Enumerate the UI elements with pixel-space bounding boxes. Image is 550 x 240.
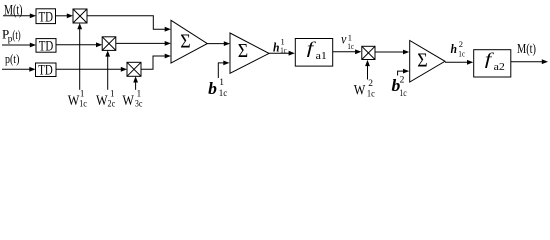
TD box 3 bbox=[36, 63, 57, 77]
svg-text:M(t): M(t) bbox=[517, 42, 536, 57]
svg-text:1c: 1c bbox=[399, 88, 406, 98]
svg-text:Σ: Σ bbox=[417, 50, 427, 72]
svg-text:a1: a1 bbox=[316, 51, 327, 62]
svg-text:W: W bbox=[68, 93, 80, 109]
svg-text:TD: TD bbox=[39, 9, 54, 25]
svg-text:3c: 3c bbox=[135, 99, 143, 109]
svg-text:1c: 1c bbox=[347, 41, 354, 51]
multiplier mult4 bbox=[362, 46, 375, 59]
multiplier mult1 bbox=[73, 9, 87, 23]
wire TD3 to mult3 bbox=[56, 68, 123, 70]
svg-text:h: h bbox=[451, 41, 458, 56]
svg-text:1: 1 bbox=[110, 88, 115, 98]
wire fa1 to mult4 bbox=[333, 51, 357, 53]
svg-text:p(t): p(t) bbox=[5, 51, 19, 66]
wire mult3 to sum1 bottom input bbox=[141, 56, 166, 69]
wire TD1 to mult1 bbox=[56, 15, 69, 17]
svg-text:b: b bbox=[208, 79, 217, 98]
wire Pp(t) input bbox=[2, 44, 31, 46]
svg-text:a2: a2 bbox=[494, 62, 505, 73]
wire mult1 to sum1 top input bbox=[87, 16, 166, 29]
wire W13c up into mult3 bbox=[135, 82, 137, 90]
svg-text:TD: TD bbox=[39, 38, 54, 54]
wire TD2 to mult2 bbox=[56, 44, 98, 46]
wire W21c up into mult4 bbox=[367, 65, 369, 80]
svg-text:Σ: Σ bbox=[238, 40, 248, 62]
TD box 1 bbox=[36, 9, 56, 24]
arrowheads bbox=[30, 13, 36, 18]
summer sum1 triangle bbox=[171, 20, 207, 63]
svg-text:1c: 1c bbox=[458, 49, 465, 59]
wire sum2 to fa1 bbox=[269, 52, 291, 54]
svg-text:1: 1 bbox=[219, 78, 224, 88]
wire p(t) input bbox=[2, 68, 31, 70]
svg-text:1c: 1c bbox=[79, 99, 87, 109]
svg-text:TD: TD bbox=[38, 63, 53, 79]
wire b21c into sum3 bbox=[398, 71, 404, 75]
wire sum1 to sum2 bbox=[207, 43, 225, 45]
wire sum3 to fa2 bbox=[445, 61, 469, 63]
svg-text:1: 1 bbox=[80, 89, 85, 99]
svg-text:h: h bbox=[273, 39, 280, 54]
wire b11c into sum2 bbox=[218, 63, 224, 78]
svg-text:Σ: Σ bbox=[180, 30, 190, 52]
wire mult2 to sum1 mid input bbox=[116, 42, 166, 44]
svg-text:1c: 1c bbox=[219, 88, 228, 98]
svg-text:2: 2 bbox=[400, 76, 405, 86]
svg-text:M(t): M(t) bbox=[4, 3, 23, 19]
svg-text:W: W bbox=[354, 83, 366, 99]
box fa1 bbox=[295, 39, 332, 67]
multiplier mult2 bbox=[102, 37, 116, 51]
svg-text:W: W bbox=[122, 93, 134, 109]
svg-text:1: 1 bbox=[137, 88, 142, 98]
svg-text:2c: 2c bbox=[108, 99, 116, 109]
wire mult4 to sum3 bbox=[375, 51, 405, 53]
svg-text:1c: 1c bbox=[367, 88, 375, 98]
svg-text:W: W bbox=[96, 93, 108, 109]
wire W12c up into mult2 bbox=[107, 56, 109, 90]
summer sum2 triangle bbox=[230, 33, 269, 73]
summer sum3 triangle bbox=[410, 41, 445, 83]
box fa2 bbox=[474, 50, 511, 77]
svg-text:(t): (t) bbox=[12, 27, 20, 42]
multiplier mult3 bbox=[127, 62, 141, 76]
wire W11c up into mult1 bbox=[79, 29, 81, 90]
svg-text:v: v bbox=[341, 32, 346, 47]
wire M(t) input bbox=[3, 15, 31, 17]
TD box 2 bbox=[36, 39, 56, 53]
wire fa2 to M(t) output bbox=[511, 61, 543, 63]
svg-text:1c: 1c bbox=[280, 45, 287, 55]
